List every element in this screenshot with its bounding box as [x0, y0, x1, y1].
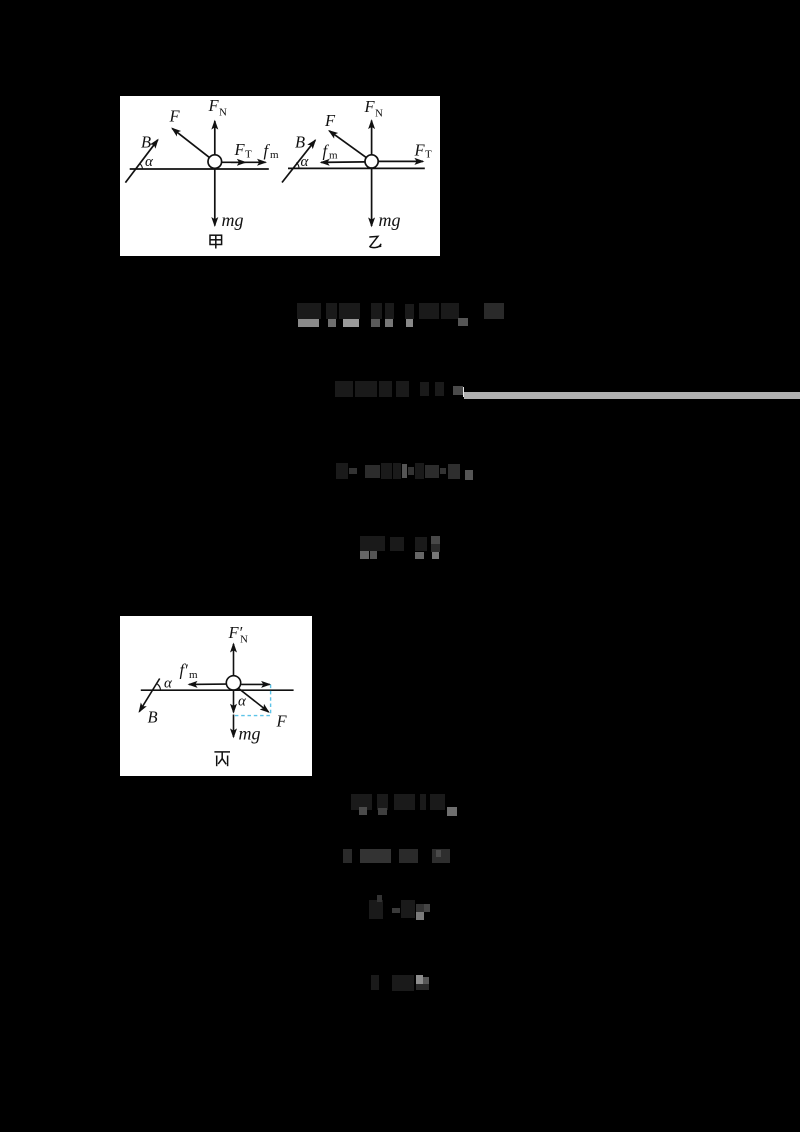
svg-text:N: N: [375, 108, 383, 120]
svg-text:F: F: [324, 111, 336, 130]
svg-text:F: F: [234, 140, 246, 159]
svg-text:F: F: [414, 141, 426, 160]
svg-text:m: m: [329, 150, 338, 162]
svg-text:F: F: [169, 107, 181, 126]
svg-text:m: m: [270, 149, 279, 161]
svg-text:F: F: [208, 96, 220, 115]
svg-text:α: α: [301, 154, 310, 170]
svg-text:mg: mg: [222, 210, 244, 230]
svg-text:B: B: [295, 132, 305, 151]
svg-text:F: F: [364, 97, 376, 116]
svg-text:mg: mg: [379, 210, 401, 230]
svg-text:T: T: [425, 149, 432, 161]
svg-text:α: α: [145, 154, 154, 170]
svg-text:T: T: [245, 149, 252, 161]
svg-text:N: N: [219, 107, 227, 119]
svg-text:B: B: [141, 132, 151, 151]
